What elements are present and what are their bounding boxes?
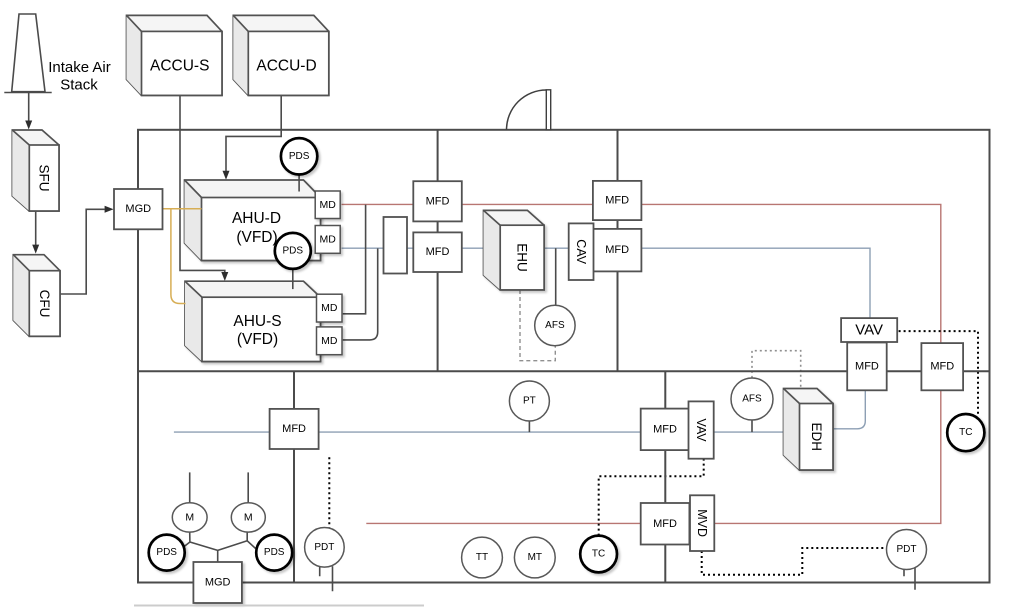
sensor PDT 1: [305, 528, 345, 568]
sensor AFS at EDH: [731, 378, 773, 420]
svg-text:MD: MD: [320, 199, 337, 211]
damper MD 4: [317, 327, 343, 355]
sensor AFS at EHU: [535, 305, 575, 345]
damper MD 1: [315, 191, 340, 219]
svg-text:Stack: Stack: [60, 76, 98, 93]
sensor MT: [514, 537, 555, 578]
svg-text:MFD: MFD: [605, 244, 629, 256]
svg-text:MFD: MFD: [426, 246, 450, 258]
wire PDS to AHU-D: [298, 175, 300, 192]
svg-text:M: M: [244, 511, 253, 523]
motor M1: [172, 503, 207, 532]
terminal VAV main: [841, 318, 897, 342]
damper MFD at VAV2: [641, 409, 690, 451]
damper MFD at MVD: [641, 503, 690, 545]
svg-text:MVD: MVD: [695, 509, 709, 537]
svg-text:EHU: EHU: [515, 243, 530, 272]
svg-text:MFD: MFD: [282, 423, 306, 435]
svg-text:PDT: PDT: [314, 542, 334, 553]
dotted line TC to VAV: [599, 459, 704, 536]
svg-text:MFD: MFD: [426, 195, 450, 207]
damper MVD: [690, 495, 714, 551]
svg-text:(VFD): (VFD): [237, 331, 278, 348]
intake air stack symbol: [12, 14, 45, 92]
sensor TT: [462, 537, 503, 578]
page edge gray line: [134, 605, 424, 607]
damper MFD supply right: [593, 181, 642, 220]
wall vertical at MFD column 1: [437, 130, 439, 371]
damper MGD (lower): [193, 562, 242, 603]
svg-text:MFD: MFD: [855, 360, 879, 372]
svg-text:MD: MD: [320, 233, 337, 245]
damper MFD return right: [593, 229, 642, 272]
damper MFD right wall: [921, 343, 963, 390]
svg-text:AFS: AFS: [742, 394, 762, 405]
wall divider horizontal: [138, 370, 990, 372]
svg-text:ACCU-S: ACCU-S: [150, 58, 209, 75]
unit ACCU-D: [233, 15, 328, 95]
wire M1 stem: [189, 472, 191, 503]
dashed line EHU to AFS: [520, 290, 555, 361]
svg-text:TC: TC: [592, 549, 605, 560]
wire PDS to AHU-S: [292, 269, 294, 289]
wire MD to supply line: [343, 205, 366, 314]
wire M2 stem: [247, 472, 249, 503]
wall vertical lower right: [664, 371, 666, 582]
damper MGD (intake): [114, 189, 163, 229]
svg-text:TC: TC: [959, 427, 972, 438]
sensor TC 1: [580, 536, 617, 573]
dotted line VAV to TC2: [899, 331, 978, 414]
svg-text:Intake Air: Intake Air: [48, 59, 111, 76]
duct segment rectangle: [384, 217, 408, 274]
return air duct line upper (blue): [342, 248, 871, 318]
damper MFD return left: [413, 232, 462, 272]
wire stack to SFU: [28, 93, 30, 121]
svg-text:MFD: MFD: [605, 195, 629, 207]
wire CFU to MGD: [60, 209, 105, 294]
svg-text:AHU-D: AHU-D: [232, 210, 281, 227]
damper MFD lower left: [270, 409, 319, 449]
wall vertical at MFD column 2: [617, 130, 619, 371]
svg-text:MGD: MGD: [205, 577, 231, 589]
dotted line MVD to PDT2: [702, 548, 887, 575]
sensor PT: [509, 381, 549, 421]
svg-text:MFD: MFD: [930, 361, 954, 373]
sensor PDS lower right: [256, 535, 292, 571]
svg-text:M: M: [185, 511, 194, 523]
unit AHU-S (VFD): [185, 281, 321, 361]
svg-text:VAV: VAV: [855, 322, 883, 339]
wire AFS stem: [751, 420, 753, 432]
svg-text:SFU: SFU: [37, 165, 52, 192]
svg-text:AFS: AFS: [545, 320, 565, 331]
sensor PDT 2: [887, 530, 927, 570]
svg-text:PDS: PDS: [264, 547, 285, 558]
unit SFU: [12, 130, 59, 211]
svg-text:AHU-S: AHU-S: [233, 313, 281, 330]
damper MD 3: [317, 294, 343, 322]
svg-text:CAV: CAV: [574, 239, 588, 264]
unit ACCU-S: [127, 15, 223, 95]
svg-text:PDS: PDS: [156, 547, 177, 558]
sensor TC 2: [947, 414, 984, 451]
svg-text:MD: MD: [321, 335, 338, 347]
wire ACCU-S to AHU-S: [180, 95, 225, 272]
wire PDT2 legs: [904, 567, 915, 590]
control line MGD to AHU-S (yellow): [171, 209, 186, 304]
svg-text:(VFD): (VFD): [236, 229, 277, 246]
motor M2: [231, 503, 265, 532]
sensor PDS at AHU-D bottom: [275, 233, 311, 269]
wire SFU to CFU: [35, 211, 37, 245]
svg-text:PDT: PDT: [897, 544, 917, 555]
svg-text:MT: MT: [528, 552, 542, 563]
dotted line AFS to EDH: [752, 351, 801, 389]
wire ACCU-D to AHU-D: [226, 95, 281, 171]
svg-text:MD: MD: [321, 302, 338, 314]
supply air duct line (red): [342, 204, 941, 523]
wires M/PDS cluster to MGD: [184, 532, 256, 562]
svg-text:VAV: VAV: [694, 418, 708, 442]
svg-text:EDH: EDH: [809, 422, 824, 451]
wall vertical lower left: [293, 371, 295, 582]
sensor PDS at AHU-D top: [281, 138, 317, 174]
damper MFD below VAV: [847, 343, 887, 391]
dotted line to PDT1: [328, 457, 330, 528]
svg-text:MFD: MFD: [653, 518, 677, 530]
svg-text:ACCU-D: ACCU-D: [256, 58, 316, 75]
damper MFD supply left: [413, 181, 462, 221]
wire PT stem: [528, 421, 530, 432]
door leaf: [546, 90, 550, 130]
wire MD to return line: [343, 248, 378, 340]
duct line EDH to MFD (blue): [833, 390, 865, 429]
unit CFU: [13, 255, 60, 337]
damper MD 2: [315, 226, 340, 254]
svg-text:MFD: MFD: [653, 423, 677, 435]
svg-text:MGD: MGD: [125, 203, 151, 215]
unit EDH: [784, 389, 834, 471]
wire PDT1 legs: [320, 566, 333, 591]
control line MGD to AHU-D (yellow): [163, 208, 202, 210]
room outer wall: [138, 130, 990, 583]
svg-text:PDS: PDS: [289, 151, 310, 162]
terminal VAV 2: [689, 401, 714, 458]
door swing arc: [507, 90, 547, 130]
unit EHU: [484, 210, 545, 290]
svg-text:CFU: CFU: [37, 290, 52, 318]
sensor PDS lower left: [149, 535, 185, 571]
wire AFS drop from return line: [555, 248, 557, 305]
unit AHU-D (VFD): [185, 180, 321, 261]
svg-text:PT: PT: [523, 396, 536, 407]
svg-text:PDS: PDS: [283, 245, 304, 256]
return air duct line lower (blue): [174, 431, 784, 433]
svg-text:TT: TT: [476, 552, 488, 563]
valve CAV: [569, 223, 594, 280]
